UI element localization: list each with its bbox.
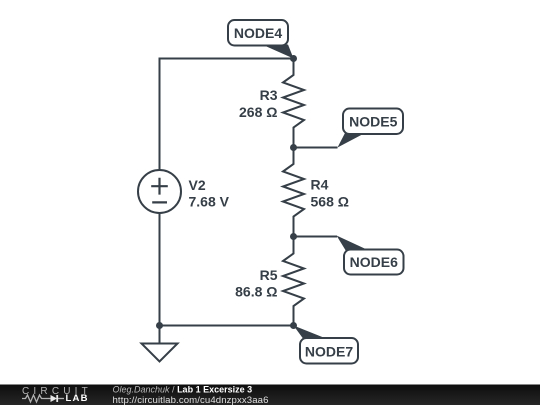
- svg-text:NODE4: NODE4: [234, 25, 282, 41]
- wire node5 stub: [294, 147, 338, 149]
- svg-text:V2: V2: [189, 177, 206, 193]
- junction dot node C (R4/R5): [290, 233, 297, 240]
- voltage source V2: [138, 170, 181, 213]
- wire left vertical upper: [159, 58, 161, 171]
- svg-text:R4: R4: [311, 176, 329, 192]
- svg-text:R5: R5: [260, 267, 278, 283]
- resistor R5: [283, 237, 304, 326]
- svg-text:7.68 V: 7.68 V: [189, 193, 230, 209]
- wire node6 stub: [294, 236, 338, 238]
- svg-text:568 Ω: 568 Ω: [311, 193, 349, 209]
- node NODE7 callout: [294, 326, 359, 364]
- ground: [142, 326, 178, 362]
- svg-text:LAB: LAB: [66, 393, 89, 404]
- wire bottom horizontal: [160, 325, 294, 327]
- node NODE4 callout: [228, 20, 294, 59]
- svg-text:http://circuitlab.com/cu4dnzpx: http://circuitlab.com/cu4dnzpxx3aa6: [113, 395, 269, 405]
- svg-text:R3: R3: [260, 87, 278, 103]
- svg-text:Oleg.Danchuk / Lab 1 Excersize: Oleg.Danchuk / Lab 1 Excersize 3: [113, 385, 253, 395]
- svg-text:268 Ω: 268 Ω: [239, 104, 277, 120]
- junction dot node A top: [290, 55, 297, 62]
- node NODE6 callout: [337, 236, 404, 275]
- junction dot node E bottom left: [156, 322, 163, 329]
- node NODE5 callout: [338, 109, 404, 148]
- footer bar: [0, 385, 540, 405]
- resistor R3: [283, 59, 304, 148]
- svg-text:NODE6: NODE6: [350, 254, 398, 270]
- junction dot node B (R3/R4): [290, 144, 297, 151]
- wire top horizontal: [160, 58, 294, 60]
- resistor R4: [283, 148, 304, 237]
- svg-text:86.8 Ω: 86.8 Ω: [235, 283, 277, 299]
- svg-text:NODE5: NODE5: [349, 113, 397, 129]
- logo resistor squiggle: [22, 395, 45, 402]
- junction dot node D bottom right: [290, 322, 297, 329]
- wire left vertical lower: [159, 213, 161, 326]
- svg-text:NODE7: NODE7: [305, 343, 353, 359]
- logo diode: [45, 398, 51, 400]
